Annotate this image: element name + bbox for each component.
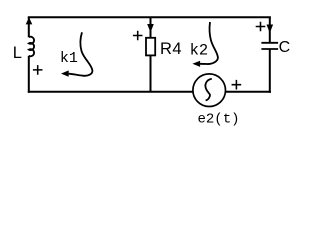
svg-text:e2(t): e2(t) <box>198 112 240 128</box>
wire left <box>28 17 30 93</box>
svg-text:k2: k2 <box>190 42 209 60</box>
source sine wave <box>205 79 211 101</box>
resistor R4 body <box>146 38 155 56</box>
wire bottom left <box>28 91 193 93</box>
plus sign of source <box>232 80 242 90</box>
svg-text:k1: k1 <box>60 50 78 67</box>
source e2(t) circle <box>193 74 226 107</box>
current arrow up on left wire <box>26 17 33 24</box>
svg-text:C: C <box>279 39 291 56</box>
svg-text:R4: R4 <box>160 40 182 58</box>
capacitor C plates <box>261 43 278 49</box>
inductor L <box>29 37 34 57</box>
plus sign of C <box>256 22 266 32</box>
wire bottom right <box>226 91 271 93</box>
current arrow down on C branch <box>267 25 274 34</box>
resistor R4 branch wire <box>150 17 152 92</box>
svg-text:L: L <box>13 44 22 62</box>
wire top <box>28 16 271 18</box>
current arrow down on R4 branch <box>147 24 154 33</box>
loop arrow k1 <box>69 32 93 76</box>
loop arrow k2 <box>200 22 218 64</box>
wire right top <box>269 17 271 43</box>
plus sign of R4 <box>133 31 143 41</box>
plus sign of L <box>33 65 43 75</box>
wire right bottom <box>269 49 271 93</box>
